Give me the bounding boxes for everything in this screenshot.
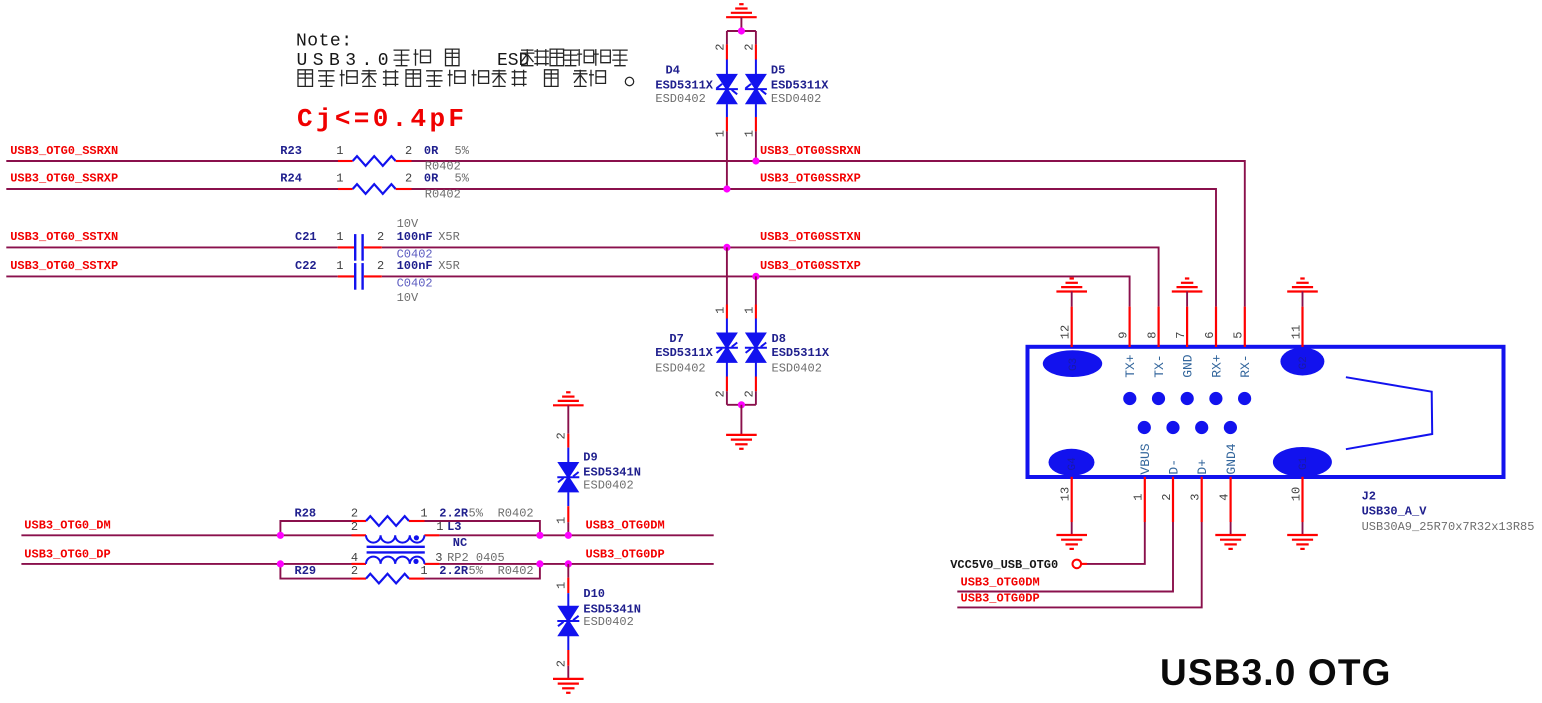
J2 shell pad G1 bbox=[1273, 447, 1332, 477]
svg-text:1: 1 bbox=[336, 259, 343, 273]
note text line 2 cjk bbox=[394, 50, 410, 66]
svg-text:USB3_OTG0DM: USB3_OTG0DM bbox=[586, 519, 665, 533]
svg-text:D+: D+ bbox=[1195, 459, 1210, 475]
svg-text:USB3_OTG0_DP: USB3_OTG0_DP bbox=[24, 547, 110, 561]
svg-text:1: 1 bbox=[336, 230, 343, 244]
power terminal VCC5V0_USB_OTG0 bbox=[1073, 560, 1082, 569]
svg-text:R29: R29 bbox=[295, 564, 317, 578]
ground above pin 12 bbox=[1056, 290, 1087, 292]
junction dot D7 row3 bbox=[723, 244, 730, 251]
resistor R23 bbox=[338, 160, 353, 162]
junction dot DP right bbox=[536, 560, 543, 567]
svg-text:1: 1 bbox=[436, 520, 443, 534]
svg-text:5%: 5% bbox=[455, 172, 470, 186]
svg-text:2: 2 bbox=[743, 44, 757, 51]
svg-text:G1: G1 bbox=[1298, 456, 1310, 470]
svg-text:2: 2 bbox=[714, 390, 728, 397]
wire D9 to DM bbox=[567, 522, 569, 535]
svg-text:4: 4 bbox=[1217, 494, 1231, 501]
wire DM to pin2 bbox=[957, 522, 1173, 592]
svg-text:D4: D4 bbox=[666, 64, 680, 78]
svg-text:2: 2 bbox=[377, 230, 384, 244]
svg-text:12: 12 bbox=[1059, 325, 1073, 339]
svg-text:VBUS: VBUS bbox=[1138, 443, 1153, 474]
svg-text:7: 7 bbox=[1174, 332, 1188, 339]
svg-text:RP2 0405: RP2 0405 bbox=[447, 551, 505, 565]
svg-text:USB3_OTG0SSTXP: USB3_OTG0SSTXP bbox=[760, 259, 861, 273]
svg-text:R0402: R0402 bbox=[425, 187, 461, 201]
junction dot D9 DM bbox=[565, 532, 572, 539]
svg-text:ESD0402: ESD0402 bbox=[583, 615, 633, 629]
J2 shell pad G3 bbox=[1043, 350, 1102, 377]
svg-text:2: 2 bbox=[351, 507, 358, 521]
ground above D9 bbox=[553, 404, 584, 406]
svg-text:L3: L3 bbox=[447, 520, 461, 534]
svg-text:USB3_OTG0DP: USB3_OTG0DP bbox=[586, 547, 665, 561]
svg-text:2: 2 bbox=[555, 660, 569, 667]
svg-text:0R: 0R bbox=[424, 172, 439, 186]
ground below D10 bbox=[553, 678, 584, 680]
svg-text:USB3_OTG0_SSRXP: USB3_OTG0_SSRXP bbox=[10, 172, 118, 186]
svg-text:9: 9 bbox=[1116, 332, 1130, 339]
svg-text:5%: 5% bbox=[469, 507, 484, 521]
svg-text:1: 1 bbox=[743, 307, 757, 314]
svg-text:2: 2 bbox=[405, 172, 412, 186]
wire D5 to SSRXN bbox=[755, 131, 757, 161]
svg-text:11: 11 bbox=[1289, 325, 1303, 339]
svg-text:2.2R: 2.2R bbox=[439, 564, 469, 578]
wire net USB3_OTG0_SSTXP row bbox=[6, 275, 338, 277]
junction dot DM right bbox=[536, 532, 543, 539]
svg-text:D9: D9 bbox=[583, 451, 597, 465]
J2 shell pad G4 bbox=[1049, 449, 1095, 476]
J2 pin 11 top stub bbox=[1301, 307, 1303, 347]
svg-text:5%: 5% bbox=[455, 144, 470, 158]
svg-text:13: 13 bbox=[1059, 487, 1073, 501]
note text line 3 cjk bbox=[298, 70, 313, 87]
svg-text:ESD5311X: ESD5311X bbox=[655, 346, 713, 360]
svg-text:1: 1 bbox=[555, 582, 569, 589]
wire net USB3_OTG0_SSRXP row bbox=[6, 188, 338, 190]
svg-text:10: 10 bbox=[1289, 487, 1303, 501]
svg-text:ESD0402: ESD0402 bbox=[655, 361, 705, 375]
svg-text:2: 2 bbox=[351, 520, 358, 534]
J2 shell pad G2 bbox=[1280, 348, 1324, 376]
svg-text:TX+: TX+ bbox=[1123, 354, 1138, 378]
svg-text:D5: D5 bbox=[771, 64, 785, 78]
wire net USB3_OTG0_DP bbox=[21, 563, 351, 565]
ground below pin 10 bbox=[1302, 522, 1304, 535]
svg-text:ESD: ESD bbox=[497, 51, 529, 71]
wire R28 branch bbox=[280, 521, 351, 535]
svg-text:D7: D7 bbox=[669, 332, 683, 346]
svg-text:10V: 10V bbox=[397, 291, 419, 305]
svg-text:RX+: RX+ bbox=[1209, 354, 1224, 378]
wire net USB3_OTG0_DM bbox=[21, 534, 351, 536]
wire D7 bottom bbox=[726, 391, 728, 405]
svg-text:100nF: 100nF bbox=[397, 230, 433, 244]
ground below pin 4 bbox=[1230, 522, 1232, 535]
J2 contact dots row 2 bbox=[1138, 421, 1151, 434]
ground above pin 11 bbox=[1287, 290, 1318, 292]
svg-text:GND: GND bbox=[1180, 354, 1195, 378]
svg-text:USB3.0 OTG: USB3.0 OTG bbox=[1160, 652, 1392, 693]
svg-text:USB3_OTG0_SSRXN: USB3_OTG0_SSRXN bbox=[10, 144, 118, 158]
diode D5 bbox=[755, 31, 757, 44]
svg-text:ESD5311X: ESD5311X bbox=[772, 346, 830, 360]
svg-text:1: 1 bbox=[743, 130, 757, 137]
svg-text:R0402: R0402 bbox=[498, 564, 534, 578]
junction dot top box bbox=[738, 27, 745, 34]
J2 pin 10 bottom stub bbox=[1301, 477, 1303, 522]
J2 pin 4 bottom stub bbox=[1229, 477, 1231, 522]
wire R29 branch bbox=[280, 564, 351, 579]
wire DP to pin3 bbox=[957, 522, 1201, 607]
svg-text:D-: D- bbox=[1166, 459, 1181, 475]
ground above pin 7 bbox=[1172, 290, 1203, 292]
svg-text:USB3_OTG0_SSTXP: USB3_OTG0_SSTXP bbox=[10, 259, 118, 273]
svg-text:USB3_OTG0SSRXP: USB3_OTG0SSRXP bbox=[760, 172, 861, 186]
svg-text:1: 1 bbox=[420, 507, 427, 521]
svg-text:USB3_OTG0_DM: USB3_OTG0_DM bbox=[24, 519, 110, 533]
svg-text:2: 2 bbox=[377, 259, 384, 273]
svg-text:2: 2 bbox=[743, 390, 757, 397]
connector J2 body bbox=[1028, 347, 1504, 477]
svg-text:USB30_A_V: USB30_A_V bbox=[1362, 504, 1428, 518]
svg-text:5: 5 bbox=[1232, 332, 1246, 339]
svg-text:TX-: TX- bbox=[1152, 354, 1167, 377]
svg-text:100nF: 100nF bbox=[397, 259, 433, 273]
wire stem to ground D7/D8 bbox=[740, 405, 742, 435]
ground below pin 13 bbox=[1071, 522, 1073, 535]
svg-text:6: 6 bbox=[1203, 332, 1217, 339]
svg-text:ESD5311X: ESD5311X bbox=[771, 78, 829, 92]
ground below D7/D8 bbox=[726, 434, 757, 436]
svg-text:2.2R: 2.2R bbox=[439, 507, 469, 521]
wire D4 to SSRXP bbox=[726, 131, 728, 189]
svg-text:2: 2 bbox=[714, 44, 728, 51]
svg-text:C0402: C0402 bbox=[397, 276, 433, 290]
svg-text:D10: D10 bbox=[583, 587, 605, 601]
svg-text:X5R: X5R bbox=[438, 259, 460, 273]
junction dot bottom box bbox=[738, 401, 745, 408]
diode D9 bbox=[567, 405, 569, 433]
wire D10 to ground bbox=[567, 666, 569, 679]
svg-text:X5R: X5R bbox=[438, 230, 460, 244]
J2 pin 5 top stub bbox=[1244, 307, 1246, 347]
diode D4 bbox=[726, 31, 728, 44]
svg-text:ESD0402: ESD0402 bbox=[772, 361, 822, 375]
svg-text:Cj<=0.4pF: Cj<=0.4pF bbox=[297, 104, 464, 134]
svg-text:2: 2 bbox=[1160, 494, 1174, 501]
svg-text:USB3_OTG0DM: USB3_OTG0DM bbox=[961, 575, 1040, 589]
J2 pin 1 bottom stub bbox=[1144, 477, 1146, 522]
svg-text:10V: 10V bbox=[397, 217, 419, 231]
J2 contact dots row 1 bbox=[1123, 392, 1136, 405]
junction dot D5 row1 bbox=[752, 157, 759, 164]
ground top of D4/D5 bbox=[726, 16, 757, 18]
svg-text:4: 4 bbox=[351, 551, 358, 565]
svg-text:VCC5V0_USB_OTG0: VCC5V0_USB_OTG0 bbox=[950, 558, 1058, 572]
svg-text:RX-: RX- bbox=[1238, 354, 1253, 377]
wire ground stem to D4/D5 box bbox=[740, 17, 742, 31]
svg-text:ESD5341N: ESD5341N bbox=[583, 465, 641, 479]
svg-text:R23: R23 bbox=[280, 144, 302, 158]
svg-text:ESD0402: ESD0402 bbox=[771, 92, 821, 106]
wire net USB3_OTG0_SSTXN row bbox=[6, 246, 338, 248]
svg-text:R28: R28 bbox=[295, 507, 317, 521]
svg-text:1: 1 bbox=[336, 172, 343, 186]
svg-text:G3: G3 bbox=[1068, 358, 1080, 371]
svg-text:R24: R24 bbox=[280, 172, 302, 186]
svg-text:8: 8 bbox=[1145, 332, 1159, 339]
diode D10 bbox=[567, 564, 569, 578]
diode D7 bbox=[726, 247, 728, 304]
svg-text:USB3_OTG0SSTXN: USB3_OTG0SSTXN bbox=[760, 230, 861, 244]
J2 pin 12 top stub bbox=[1071, 307, 1073, 347]
svg-text:3: 3 bbox=[435, 551, 442, 565]
resistor R29 bbox=[352, 578, 367, 580]
resistor R24 bbox=[338, 188, 353, 190]
svg-text:1: 1 bbox=[714, 307, 728, 314]
svg-text:1: 1 bbox=[336, 144, 343, 158]
capacitor C21 bbox=[338, 246, 354, 248]
wire VBUS pin1 bbox=[1087, 522, 1145, 564]
svg-text:3: 3 bbox=[1189, 494, 1203, 501]
svg-text:J2: J2 bbox=[1362, 490, 1376, 504]
svg-text:2: 2 bbox=[555, 432, 569, 439]
capacitor C22 bbox=[338, 275, 354, 277]
svg-text:C22: C22 bbox=[295, 259, 317, 273]
diode D8 bbox=[755, 276, 757, 304]
junction dot DP left bbox=[277, 560, 284, 567]
svg-text:1: 1 bbox=[555, 517, 569, 524]
svg-text:1: 1 bbox=[714, 130, 728, 137]
svg-text:C21: C21 bbox=[295, 230, 317, 244]
svg-text:1: 1 bbox=[1132, 494, 1146, 501]
wire D8 bottom bbox=[755, 391, 757, 405]
svg-text:USB3_OTG0SSRXN: USB3_OTG0SSRXN bbox=[760, 144, 861, 158]
svg-text:GND4: GND4 bbox=[1224, 443, 1239, 474]
svg-text:2: 2 bbox=[405, 144, 412, 158]
svg-text:USB30A9_25R70x7R32x13R85: USB30A9_25R70x7R32x13R85 bbox=[1362, 520, 1535, 534]
svg-text:G2: G2 bbox=[1298, 356, 1310, 369]
wire D7/D8 bottom box bbox=[727, 404, 756, 406]
J2 plug chevron bbox=[1346, 377, 1432, 449]
svg-text:Note:: Note: bbox=[296, 32, 352, 52]
svg-text:ESD5311X: ESD5311X bbox=[655, 78, 713, 92]
svg-text:NC: NC bbox=[453, 536, 467, 550]
svg-text:5%: 5% bbox=[469, 564, 484, 578]
svg-text:D8: D8 bbox=[772, 332, 786, 346]
svg-text:0R: 0R bbox=[424, 144, 439, 158]
wire D4/D5 top box bbox=[727, 30, 756, 32]
wire net USB3_OTG0_SSRXN row bbox=[6, 160, 338, 162]
svg-text:ESD0402: ESD0402 bbox=[655, 92, 705, 106]
J2 pin 3 bottom stub bbox=[1201, 477, 1203, 522]
svg-text:ESD0402: ESD0402 bbox=[583, 478, 633, 492]
J2 pin 9 top stub bbox=[1128, 307, 1130, 347]
svg-text:G4: G4 bbox=[1067, 457, 1079, 471]
resistor R28 bbox=[352, 520, 367, 522]
junction dot DM left bbox=[277, 532, 284, 539]
svg-text:R0402: R0402 bbox=[498, 507, 534, 521]
junction dot D10 DP bbox=[565, 560, 572, 567]
inductor L3 common mode choke bbox=[352, 534, 367, 536]
J2 pin 7 top stub bbox=[1186, 307, 1188, 347]
J2 pin 8 top stub bbox=[1157, 307, 1159, 347]
J2 pin 6 top stub bbox=[1215, 307, 1217, 347]
J2 pin 13 bottom stub bbox=[1071, 477, 1073, 522]
svg-text:1: 1 bbox=[420, 564, 427, 578]
svg-text:USB3_OTG0_SSTXN: USB3_OTG0_SSTXN bbox=[10, 230, 118, 244]
svg-text:USB3_OTG0DP: USB3_OTG0DP bbox=[961, 591, 1040, 605]
J2 pin 2 bottom stub bbox=[1172, 477, 1174, 522]
junction dot D8 row4 bbox=[752, 273, 759, 280]
junction dot D4 row2 bbox=[723, 185, 730, 192]
svg-text:2: 2 bbox=[351, 564, 358, 578]
